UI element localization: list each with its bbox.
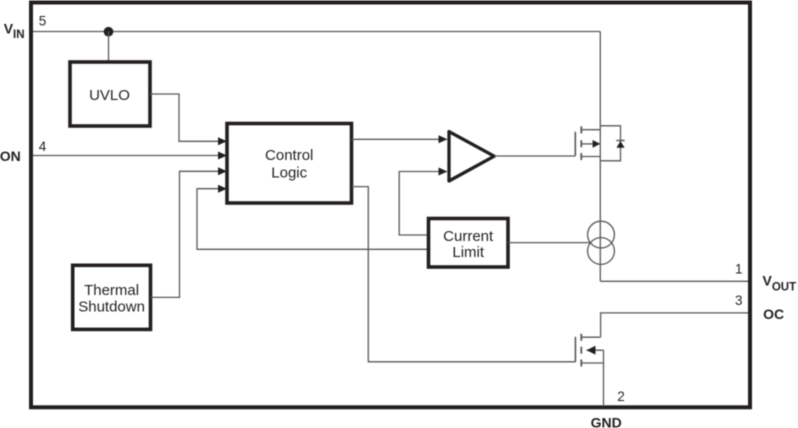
- transistor Q2 gate bar: [574, 337, 576, 362]
- transistor Q2 source stub: [581, 362, 603, 364]
- current source I1 circle upper: [588, 221, 615, 248]
- transistor Q1 body stub with arrow: [581, 143, 593, 145]
- svg-text:VIN: VIN: [4, 21, 25, 42]
- transistor Q1 gate bar: [574, 132, 576, 156]
- svg-text:1: 1: [735, 262, 743, 277]
- svg-text:VOUT: VOUT: [763, 273, 797, 294]
- Control Logic box U4: [227, 124, 352, 204]
- wire OC pin to Q2 drain: [601, 313, 748, 337]
- wire Q2 source to GND: [603, 350, 605, 406]
- wire Current Limit output to current source: [508, 242, 590, 244]
- arrowhead into Control Logic input 1: [218, 137, 227, 145]
- driver triangle U5: [449, 132, 494, 181]
- svg-text:5: 5: [39, 13, 47, 28]
- wire ON pin to Control Logic input 2: [33, 155, 220, 157]
- svg-text:3: 3: [735, 293, 743, 308]
- svg-text:Current: Current: [443, 228, 494, 245]
- wire junction dot to UVLO top: [108, 32, 110, 63]
- svg-text:GND: GND: [591, 415, 622, 428]
- svg-text:ON: ON: [0, 148, 21, 164]
- svg-text:OC: OC: [763, 306, 784, 322]
- UVLO box U2: [70, 62, 150, 126]
- wire Thermal Shutdown output to Control Logic input 3: [151, 171, 220, 297]
- svg-text:4: 4: [39, 139, 47, 154]
- transistor Q1 drain stub: [581, 129, 600, 131]
- arrowhead into Control Logic input 3: [218, 167, 227, 175]
- transistor Q1 channel dashes: [580, 126, 582, 160]
- wire Control Logic output to Q2 gate: [352, 187, 576, 362]
- body diode D1 cathode bar: [616, 140, 624, 142]
- svg-text:Limit: Limit: [452, 244, 485, 261]
- arrowhead into triangle input 1: [439, 135, 448, 143]
- svg-text:Thermal: Thermal: [84, 282, 139, 299]
- wire Control Logic output to driver triangle input 1: [352, 138, 441, 140]
- Thermal Shutdown box U3: [73, 265, 151, 329]
- svg-text:UVLO: UVLO: [89, 87, 130, 104]
- arrowhead into Control Logic input 4: [218, 185, 227, 193]
- arrowhead into triangle input 2: [439, 168, 448, 176]
- wire VOUT horizontal to pin 1: [600, 280, 748, 282]
- node junction dot on VIN wire: [104, 27, 114, 37]
- svg-text:Logic: Logic: [271, 164, 307, 181]
- svg-text:2: 2: [617, 389, 625, 404]
- transistor Q1 source stub: [581, 156, 600, 158]
- svg-text:Control: Control: [265, 147, 313, 164]
- transistor Q2 channel dashes: [580, 334, 582, 367]
- transistor Q2 body stub: [587, 349, 604, 351]
- body diode D1 loop: [600, 126, 620, 161]
- Current Limit box U6: [429, 219, 509, 268]
- transistor Q1 body arrow: [593, 140, 601, 148]
- wire main rail from VIN corner down to VOUT corner: [599, 32, 601, 282]
- transistor Q2 body arrow: [587, 346, 596, 355]
- wire triangle output to Q1 gate: [495, 155, 576, 157]
- wire UVLO output to Control Logic input 1: [150, 94, 220, 141]
- transistor Q2 drain stub: [581, 336, 600, 338]
- body diode D1 triangle: [616, 141, 624, 148]
- wire Current Limit to triangle input 2: [399, 172, 440, 236]
- svg-text:Shutdown: Shutdown: [78, 298, 145, 315]
- arrowhead into Control Logic input 2: [218, 152, 227, 160]
- wire Current Limit feedback to Control Logic input 4: [197, 189, 429, 250]
- current source I1 circle lower: [588, 238, 615, 265]
- wire VIN: pin 5 to top-right rail corner: [33, 31, 600, 33]
